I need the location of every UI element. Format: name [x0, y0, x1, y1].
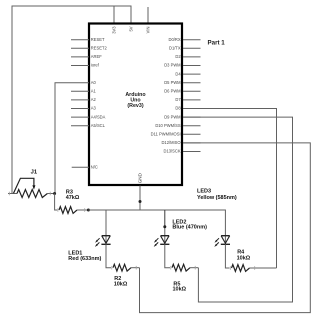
resistor R5	[171, 264, 199, 271]
svg-text:D11 PWM/MOSI: D11 PWM/MOSI	[151, 132, 181, 137]
svg-text:10kΩ: 10kΩ	[173, 287, 187, 293]
svg-text:RESET: RESET	[91, 37, 105, 42]
wire: LED2 anode branch	[164, 210, 166, 227]
svg-text:D8: D8	[175, 106, 181, 111]
wire: R5 to pin D9 PWM	[183, 117, 293, 302]
resistor R3	[58, 207, 89, 214]
pin D0/RX	[169, 37, 201, 42]
svg-text:D13/SCK: D13/SCK	[164, 149, 181, 154]
pin D7	[175, 97, 200, 102]
junction: GND wire dot	[139, 200, 142, 203]
pin D2	[175, 54, 200, 59]
IC U1: Arduino Uno (Rev3) chip body	[89, 24, 182, 186]
pin AREF	[71, 54, 102, 59]
svg-text:D0/RX: D0/RX	[169, 37, 181, 42]
pin A3	[71, 106, 97, 111]
svg-text:AREF: AREF	[91, 54, 102, 59]
pin D3 PWM	[164, 63, 200, 68]
pin A2	[71, 97, 97, 102]
svg-text:A3: A3	[91, 106, 97, 111]
wire: pot junction down to R3	[55, 194, 58, 211]
svg-text:VIN: VIN	[146, 26, 151, 33]
svg-text:N/C: N/C	[91, 164, 98, 169]
potentiometer J1	[8, 178, 55, 197]
svg-text:D4: D4	[175, 71, 181, 76]
wire: R4 to pin D8	[183, 109, 277, 269]
pin D13/SCK	[164, 149, 201, 154]
svg-text:A1: A1	[91, 89, 97, 94]
svg-text:D5 PWM: D5 PWM	[164, 80, 181, 85]
junction: LED2 anode dot	[163, 225, 166, 228]
svg-text:3V3: 3V3	[112, 26, 117, 34]
svg-text:10kΩ: 10kΩ	[237, 255, 251, 261]
pin D10 PWM/SS	[155, 123, 200, 128]
wire: GND pin to bus	[139, 186, 141, 211]
svg-text:(Rev3): (Rev3)	[127, 103, 143, 109]
pin A1	[71, 89, 97, 94]
svg-text:ioref: ioref	[91, 63, 100, 68]
pin D8	[175, 106, 200, 111]
pin D1/TX	[169, 46, 201, 51]
svg-text:Part 1: Part 1	[208, 40, 226, 47]
wire: LED1 anode branch	[105, 210, 107, 235]
svg-text:D1/TX: D1/TX	[169, 46, 181, 51]
wire: LED3 cathode to R4	[225, 244, 229, 268]
svg-text:Yellow (585nm): Yellow (585nm)	[197, 195, 237, 201]
pin D4	[175, 71, 200, 76]
svg-text:5V: 5V	[129, 26, 134, 31]
wire: A0 to potentiometer junction	[55, 83, 71, 194]
svg-text:D9 PWM: D9 PWM	[164, 114, 181, 119]
svg-text:D2: D2	[175, 54, 181, 59]
svg-text:D10 PWM/SS: D10 PWM/SS	[155, 123, 181, 128]
LED LED3	[214, 235, 230, 247]
pin D6 PWM	[164, 89, 200, 94]
junction: R3 right / ground bus	[87, 209, 90, 212]
svg-text:D6 PWM: D6 PWM	[164, 89, 181, 94]
pin A0	[71, 80, 97, 85]
svg-text:J1: J1	[31, 169, 38, 175]
svg-text:A4/SDA: A4/SDA	[91, 114, 106, 119]
pin RESET	[71, 37, 105, 42]
svg-text:D12/MISO: D12/MISO	[161, 140, 180, 145]
wire: R2 to pin D12/MISO	[140, 143, 311, 313]
resistor R2	[112, 264, 140, 271]
wire: LED1 cathode to R2	[106, 244, 111, 267]
resistor R4	[230, 265, 276, 272]
svg-text:D7: D7	[175, 97, 181, 102]
pin D9 PWM	[164, 114, 200, 119]
pin N/C	[72, 164, 98, 169]
svg-text:D3 PWM: D3 PWM	[164, 63, 181, 68]
LED LED1	[95, 235, 111, 247]
wire: LED2 cathode to R5	[165, 244, 170, 267]
svg-text:Blue (470nm): Blue (470nm)	[172, 225, 207, 231]
label: Arduino Uno (Rev3)	[125, 92, 146, 109]
wire: 3V3 pin drop	[113, 6, 115, 24]
wire: ground bus across to LED3 anode	[88, 210, 225, 235]
pin D11 PWM/MOSI	[151, 132, 201, 137]
svg-text:GND: GND	[137, 172, 142, 183]
svg-text:LED3: LED3	[197, 189, 211, 195]
wire: power rail from pot left up and across to 5V pin	[12, 6, 131, 194]
pin ioref	[71, 63, 100, 68]
pin A5/SCL	[71, 123, 106, 128]
svg-text:47kΩ: 47kΩ	[66, 195, 80, 201]
LED LED2	[154, 235, 170, 247]
svg-text:A5/SCL: A5/SCL	[91, 123, 106, 128]
svg-text:10kΩ: 10kΩ	[114, 282, 128, 288]
wire: VIN pin stub	[147, 7, 149, 24]
pin RESET2	[71, 46, 107, 51]
pin D12/MISO	[161, 140, 200, 145]
svg-text:A0: A0	[91, 80, 97, 85]
svg-text:RESET2: RESET2	[91, 46, 108, 51]
svg-text:Red (633nm): Red (633nm)	[68, 256, 101, 262]
junction: pot right terminal / A0 / R3	[53, 192, 56, 195]
pin A4/SDA	[71, 114, 106, 119]
pin D5 PWM	[164, 80, 200, 85]
svg-text:A2: A2	[91, 97, 97, 102]
